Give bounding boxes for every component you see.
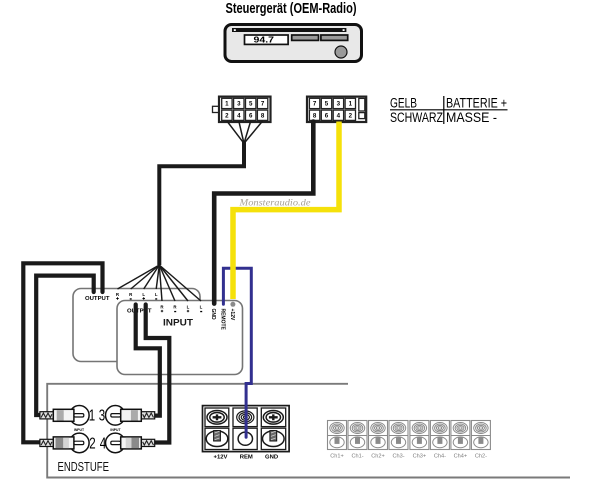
svg-text:3: 3: [99, 405, 106, 423]
svg-text:Ch2+: Ch2+: [371, 454, 385, 460]
svg-text:Ch1+: Ch1+: [330, 454, 344, 460]
line converter module B (front): [117, 301, 243, 375]
label: +12V REM GND: [214, 454, 279, 460]
wire: harness J1 to line-converter fan point: [159, 142, 244, 265]
OEM radio head unit U1: [225, 25, 362, 62]
wire: module B OUTPUT right pin to RCA 4: [146, 305, 170, 443]
svg-text:7: 7: [261, 101, 265, 108]
svg-text:2: 2: [349, 112, 353, 119]
svg-text:L: L: [200, 304, 203, 309]
wire: module A OUTPUT right pin to RCA 2: [23, 263, 102, 442]
svg-text:4: 4: [100, 433, 107, 451]
label: INPUT under RCA jacks: [74, 428, 122, 432]
module A input pins R R L L: [116, 292, 158, 297]
svg-text:INPUT: INPUT: [74, 428, 85, 432]
svg-text:+12V: +12V: [214, 454, 228, 460]
svg-text:+12V: +12V: [229, 309, 235, 321]
svg-text:2: 2: [89, 433, 96, 451]
svg-text:Steuergerät (OEM-Radio): Steuergerät (OEM-Radio): [226, 1, 357, 17]
svg-text:8: 8: [313, 112, 317, 119]
svg-text:1: 1: [225, 101, 229, 108]
svg-text:L: L: [155, 292, 158, 297]
label: channel terminals: [330, 454, 487, 460]
RCA plug 2: [40, 433, 89, 453]
GND screw terminal: [263, 411, 283, 425]
svg-text:Ch4+: Ch4+: [454, 454, 468, 460]
svg-text:Ch3+: Ch3+: [413, 454, 427, 460]
svg-text:REMOTE: REMOTE: [220, 309, 226, 331]
wire: fan-out from connector J1 pins 2,4,6,8: [227, 121, 263, 143]
module B input pins R R L L: [160, 304, 202, 309]
svg-text:GND: GND: [210, 309, 216, 321]
svg-text:5: 5: [249, 101, 253, 108]
wire: module B OUTPUT left pin to RCA 3: [136, 305, 160, 416]
svg-text:8: 8: [261, 112, 265, 119]
svg-text:SCHWARZ: SCHWARZ: [390, 110, 443, 125]
radio CD slot: [232, 28, 346, 32]
svg-text:GELB: GELB: [390, 95, 417, 110]
wire: fan-out from harness to module pins: [118, 265, 202, 301]
label: RCA numbers 1 3 / 2 4: [89, 405, 107, 451]
svg-text:Monsteraudio.de: Monsteraudio.de: [238, 198, 310, 208]
svg-text:MASSE -: MASSE -: [446, 110, 497, 125]
RCA plug 4: [106, 433, 155, 453]
svg-text:1: 1: [89, 405, 96, 423]
svg-text:GND: GND: [265, 454, 278, 460]
svg-text:INPUT: INPUT: [163, 317, 193, 328]
svg-text:6: 6: [325, 112, 329, 119]
radio knob: [335, 46, 347, 58]
GND clamp: [263, 431, 285, 447]
wire: yellow +12V from J2 pin 4: [233, 122, 339, 300]
svg-text:OUTPUT: OUTPUT: [85, 296, 110, 302]
+12V clamp: [206, 431, 228, 447]
radio button 2: [321, 35, 348, 40]
svg-text:94.7: 94.7: [254, 34, 275, 44]
svg-text:6: 6: [249, 112, 253, 119]
ISO connector J1 (pins 1-8): [213, 97, 271, 122]
wire: black GND from J2 pin 8 to module B GND: [214, 122, 313, 304]
svg-text:BATTERIE +: BATTERIE +: [446, 95, 507, 110]
svg-text:INPUT: INPUT: [110, 428, 121, 432]
REM screw terminal: [237, 411, 254, 424]
RCA plug 1: [40, 406, 89, 426]
ENDSTUFE amplifier outline: [47, 384, 570, 478]
svg-text:OUTPUT: OUTPUT: [127, 309, 152, 315]
svg-text:5: 5: [325, 101, 329, 108]
pin +12V: [230, 302, 235, 307]
REM clamp (wire inserted): [238, 432, 252, 445]
svg-text:Ch1-: Ch1-: [351, 454, 363, 460]
radio display 94.7: [245, 35, 289, 44]
svg-text:3: 3: [337, 101, 341, 108]
svg-text:L: L: [187, 304, 190, 309]
label: GELB / BATTERIE + / SCHWARZ / MASSE - table: [390, 95, 508, 125]
svg-text:Ch4-: Ch4-: [434, 454, 446, 460]
svg-text:4: 4: [237, 112, 241, 119]
wire: module A OUTPUT left pin to RCA 1: [36, 276, 93, 415]
ISO connector J2 (pins 1-8): [307, 97, 366, 122]
wire: blue remote from module B to REM terminal: [223, 268, 251, 437]
svg-text:ENDSTUFE: ENDSTUFE: [58, 459, 110, 474]
power terminal block (+12V REM GND): [203, 406, 290, 452]
svg-text:3: 3: [237, 101, 241, 108]
line converter module A (back): [73, 289, 200, 362]
svg-text:L: L: [142, 292, 145, 297]
RCA plug 3: [106, 406, 155, 426]
svg-text:1: 1: [349, 101, 353, 108]
svg-text:REM: REM: [240, 454, 253, 460]
svg-text:7: 7: [313, 101, 317, 108]
speaker terminal strip Ch1-Ch4: [328, 421, 491, 450]
svg-text:2: 2: [225, 112, 229, 119]
svg-text:Ch2-: Ch2-: [475, 454, 487, 460]
svg-text:Ch3-: Ch3-: [392, 454, 404, 460]
+12V screw terminal: [207, 411, 227, 425]
radio button 1: [292, 35, 319, 40]
svg-text:4: 4: [337, 112, 341, 119]
